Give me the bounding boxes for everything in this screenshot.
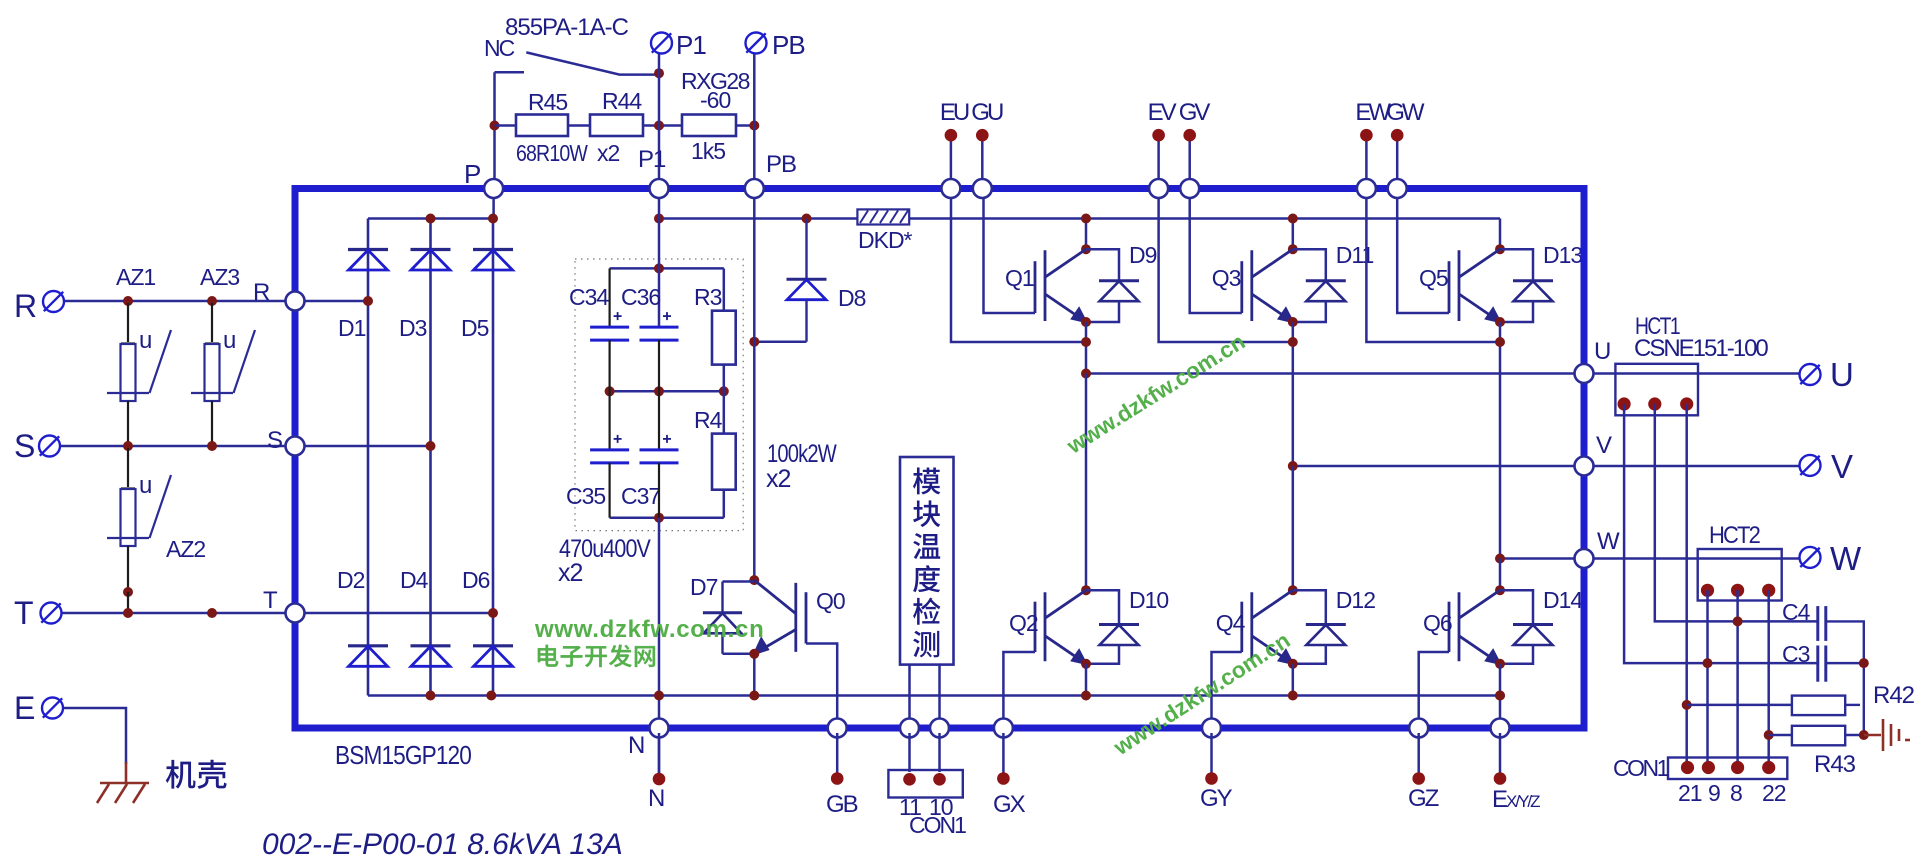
node GB on bottom bus — [828, 719, 847, 738]
wire D7 bottom to Q0 — [723, 653, 755, 656]
arrester AZ1 disconnector — [107, 392, 149, 394]
wire N vertical from caps — [658, 518, 661, 779]
arrester AZ1 body — [121, 342, 135, 344]
terminal dot EW — [1360, 129, 1373, 142]
junction dot Q6 emitter — [1495, 659, 1505, 669]
svg-text:Q2: Q2 — [1009, 610, 1038, 636]
junction dot S-AZ3 — [207, 441, 217, 451]
wire C4 right — [1826, 621, 1864, 735]
junction dot top rail D3 — [426, 214, 436, 224]
wire PB vertical to brake — [753, 192, 756, 580]
junction dot Q6 emitter rail — [1495, 691, 1505, 701]
diode D8 — [805, 219, 807, 280]
diode D7 — [721, 582, 723, 613]
arrester AZ2 lead bottom — [127, 546, 129, 590]
pin dot 9 — [1702, 761, 1715, 774]
junction dot Q3 rail — [1288, 214, 1298, 224]
wire D7 top to Q0 — [723, 580, 755, 583]
sensor dots HCT1 — [1618, 397, 1631, 410]
resistor R4 — [723, 391, 726, 433]
svg-text:P1: P1 — [676, 30, 706, 60]
fuse DKD* hatched box — [857, 209, 909, 224]
junction dot T-AZ2 — [123, 608, 133, 618]
svg-text:8: 8 — [1730, 780, 1742, 806]
svg-text:GU: GU — [971, 99, 1003, 126]
junction dot Q5 emitter — [1495, 317, 1505, 327]
aux emitter rail EW — [1366, 192, 1500, 342]
pin dot 11 — [903, 773, 916, 786]
cap bank mid rail — [610, 390, 724, 393]
wire terminal GW stub — [1396, 135, 1399, 185]
node P1 on top bus — [650, 179, 669, 198]
junction dot Q5 aux emitter — [1495, 337, 1505, 347]
svg-text:C4: C4 — [1782, 599, 1811, 625]
wire Q4 emitter down — [1292, 664, 1295, 696]
wire C35 lead top — [608, 391, 610, 450]
node GW on top bus — [1388, 179, 1407, 198]
diode D5 — [473, 250, 513, 271]
svg-text:855PA-1A-C: 855PA-1A-C — [505, 14, 629, 41]
junction dot R43 line — [1764, 730, 1774, 740]
terminal V output — [1800, 455, 1821, 476]
terminal dot E — [1494, 772, 1507, 785]
current sensor HCT2 box — [1698, 549, 1782, 601]
pin dot 21 — [1681, 761, 1694, 774]
wire terminal EU stub — [950, 135, 953, 185]
svg-text:R: R — [253, 279, 270, 306]
box module temperature detection — [900, 457, 954, 665]
node GU on top bus — [973, 179, 992, 198]
terminal P1 — [651, 33, 672, 54]
junction dot W rail — [1495, 554, 1505, 564]
junction dot Q1 emitter — [1081, 317, 1091, 327]
junction dot T-D5 — [488, 608, 498, 618]
wire Q6 emitter to EXYZ — [1499, 696, 1502, 724]
junction dot bottom rail D4 — [426, 691, 436, 701]
rectifier bottom rail / N-side emitter rail — [368, 694, 1500, 697]
terminal W output — [1800, 547, 1821, 568]
svg-text:Q5: Q5 — [1419, 265, 1448, 291]
svg-text:R43: R43 — [1814, 751, 1856, 778]
svg-text:D13: D13 — [1543, 242, 1582, 268]
terminal dot GB — [831, 772, 844, 785]
svg-text:S: S — [14, 428, 35, 464]
wire Q3 emitter down — [1292, 322, 1295, 466]
capacitor C4 — [1818, 606, 1826, 641]
wire P1 vertical — [658, 54, 661, 186]
svg-text:x2: x2 — [597, 140, 620, 166]
wire C37 lead top — [658, 391, 660, 450]
node GZ on bottom bus — [1409, 719, 1428, 738]
junction dot PB-RXG — [749, 121, 759, 131]
wire terminal GB stub — [836, 733, 839, 773]
arrester AZ1 lead top — [127, 303, 129, 342]
junction dot PB-D8 — [749, 337, 759, 347]
junction dot Q4 collector — [1288, 585, 1298, 595]
wire C36 lead bottom — [658, 340, 660, 391]
svg-text:V: V — [1596, 432, 1612, 459]
wire HCT1 mid output — [1655, 404, 1817, 621]
node EW on top bus — [1357, 179, 1376, 198]
resistor R44 — [590, 115, 643, 137]
cap bank top rail — [610, 267, 724, 270]
svg-text:1k5: 1k5 — [691, 138, 725, 164]
wire AZ2 to T — [127, 592, 129, 613]
node U on right edge — [1575, 364, 1594, 383]
terminal dot GU — [976, 129, 989, 142]
diode D6 — [473, 646, 513, 667]
junction dot Q1 rail — [1081, 214, 1091, 224]
svg-text:W: W — [1830, 540, 1862, 577]
junction dot Q0 collector — [749, 575, 759, 585]
junction dot rail D8 — [802, 214, 812, 224]
junction dot Q6 collector — [1495, 585, 1505, 595]
wire Q6 gate lead — [1419, 652, 1449, 723]
wire temp box pin 10 — [938, 665, 941, 723]
wire terminal N stub — [658, 733, 661, 773]
svg-text:x2: x2 — [558, 559, 583, 587]
svg-text:22: 22 — [1762, 780, 1786, 806]
wire Q2 emitter down — [1085, 664, 1088, 696]
transistor Q5 IGBT — [1449, 249, 1500, 321]
junction dot Q0 emitter rail — [749, 691, 759, 701]
chassis ground — [97, 783, 149, 803]
node V on right edge — [1575, 457, 1594, 476]
arrester AZ2 lead top — [127, 448, 129, 487]
svg-text:CON1: CON1 — [909, 812, 966, 838]
junction dot U rail — [1081, 369, 1091, 379]
junction dot Q5 collector — [1495, 244, 1505, 254]
pin dot 22 — [1762, 761, 1775, 774]
junction dot bottom rail D6 — [486, 691, 496, 701]
wire bus to CON1 pin 11 — [908, 733, 911, 772]
terminal dot GZ — [1412, 772, 1425, 785]
node EV on top bus — [1149, 179, 1168, 198]
junction dot R42 line — [1682, 700, 1692, 710]
svg-text:C35: C35 — [566, 483, 605, 509]
junction dot C3 line — [1703, 658, 1713, 668]
resistor R43 — [1769, 734, 1792, 737]
junction dot S-D3 — [426, 441, 436, 451]
phase rail W — [1500, 557, 1799, 560]
svg-text:D4: D4 — [400, 567, 429, 593]
transistor Q4 IGBT — [1242, 590, 1293, 663]
terminal dot EV — [1152, 129, 1165, 142]
wire W upper-lower link — [1499, 559, 1502, 591]
svg-text:T: T — [14, 595, 34, 631]
wire terminal E stub — [1499, 733, 1502, 773]
wire Q4 gate lead — [1212, 652, 1242, 723]
junction dot Q6 emitter rail — [1495, 691, 1505, 701]
wire column D3 — [429, 219, 432, 696]
wire PB vertical — [753, 54, 756, 186]
svg-text:N: N — [648, 785, 664, 812]
wire Q5 collector — [1499, 219, 1502, 250]
diode D1 — [348, 250, 388, 271]
terminal U output — [1800, 364, 1821, 385]
svg-text:R3: R3 — [694, 284, 722, 310]
svg-text:R42: R42 — [1873, 682, 1915, 709]
capacitor C34 — [590, 327, 629, 340]
wire C37 lead bottom — [658, 463, 660, 518]
svg-text:DKD*: DKD* — [858, 227, 913, 253]
svg-text:BSM15GP120: BSM15GP120 — [335, 740, 471, 770]
wire Q0 emitter to rail — [753, 654, 756, 696]
wire C34 lead bottom — [608, 340, 610, 391]
wire terminal GV stub — [1188, 135, 1191, 185]
svg-text:C36: C36 — [621, 284, 660, 310]
terminal dot N — [653, 773, 666, 786]
svg-text:C37: C37 — [621, 483, 660, 509]
svg-text:E: E — [14, 690, 35, 726]
svg-text:u: u — [139, 327, 151, 354]
node T on left edge — [286, 604, 305, 623]
wire S input line — [60, 445, 286, 448]
svg-text:CSNE151-100: CSNE151-100 — [1634, 335, 1768, 362]
junction dot mid C36 — [654, 386, 664, 396]
cap bank bottom rail — [610, 516, 724, 519]
node EXYZ on bottom bus — [1491, 719, 1510, 738]
svg-text:u: u — [223, 327, 235, 354]
svg-text:PB: PB — [772, 30, 805, 60]
junction dot Q0 emitter — [749, 649, 759, 659]
terminal dot GV — [1183, 129, 1196, 142]
wire HCT2 mid output — [1736, 590, 1739, 767]
svg-text:C34: C34 — [569, 284, 609, 310]
svg-text:U: U — [1594, 338, 1610, 365]
svg-text:S: S — [267, 427, 282, 454]
junction dot Q1 aux emitter — [1081, 337, 1091, 347]
capacitor C3 — [1818, 646, 1826, 682]
node W on right edge — [1575, 549, 1594, 568]
node S on left edge — [286, 437, 305, 456]
diode D4 — [411, 646, 451, 667]
wire E input line — [63, 708, 126, 764]
svg-text:GX: GX — [993, 791, 1026, 818]
diode D10 — [1086, 590, 1119, 624]
phase rail V — [1293, 465, 1799, 468]
wire Q3 collector — [1292, 219, 1295, 250]
junction dot top rail D5 — [488, 214, 498, 224]
junction dot R43 bus — [1859, 730, 1869, 740]
wire C35 lead bottom — [608, 463, 610, 518]
svg-text:Q0: Q0 — [816, 588, 845, 614]
module outline BSM15GP120 — [295, 189, 1584, 729]
relay fixed contact tick — [495, 71, 525, 74]
node 11 on bottom bus — [900, 719, 919, 738]
arrester AZ2 body — [121, 487, 135, 489]
wire R44 lead right — [643, 124, 682, 127]
wire Q5 emitter down — [1499, 322, 1502, 559]
svg-text:D9: D9 — [1129, 242, 1157, 268]
node GY on bottom bus — [1202, 719, 1221, 738]
wire terminal GY stub — [1210, 733, 1213, 773]
junction dot Q2 emitter rail — [1081, 691, 1091, 701]
node PB on top bus — [745, 179, 764, 198]
wire bus to CON1 pin 10 — [938, 733, 941, 772]
earth ground — [1864, 719, 1910, 751]
junction dot cap top rail — [654, 263, 664, 273]
svg-text:N: N — [628, 732, 644, 759]
svg-text:AZ3: AZ3 — [200, 264, 239, 290]
wire V upper-lower link — [1292, 466, 1295, 590]
wire HCT1 left output — [1624, 404, 1817, 663]
svg-text:R44: R44 — [602, 88, 642, 114]
aux emitter rail EV — [1159, 192, 1293, 342]
junction dot S-AZ1 — [123, 441, 133, 451]
pin dot 8 — [1731, 761, 1744, 774]
arrester AZ2 disconnector — [107, 537, 149, 539]
svg-text:EV: EV — [1148, 99, 1177, 126]
junction dot R-AZ3 — [207, 296, 217, 306]
terminal dot GW — [1391, 129, 1404, 142]
svg-text:D11: D11 — [1336, 242, 1374, 268]
junction dot C4 line — [1733, 616, 1743, 626]
svg-text:HCT2: HCT2 — [1709, 522, 1761, 549]
svg-text:Q6: Q6 — [1423, 610, 1452, 636]
svg-text:AZ2: AZ2 — [166, 536, 205, 562]
junction dot rail P1 — [654, 214, 664, 224]
svg-text:CON1: CON1 — [1613, 755, 1669, 781]
wire column D5 — [492, 219, 495, 696]
wire T input line — [61, 612, 286, 615]
junction dot blade-P1 — [654, 68, 664, 78]
svg-text:Q4: Q4 — [1216, 610, 1246, 636]
junction dot Q3 aux emitter — [1288, 337, 1298, 347]
svg-text:D14: D14 — [1543, 587, 1583, 613]
terminal S — [39, 436, 60, 457]
svg-text:EU: EU — [940, 99, 969, 126]
junction dot Q3 collector — [1288, 244, 1298, 254]
svg-text:PB: PB — [766, 151, 796, 178]
capacitor C35 — [590, 450, 629, 463]
wire C34 lead top — [608, 268, 610, 327]
wire terminal EW stub — [1365, 135, 1368, 185]
current sensor HCT1 box — [1615, 364, 1698, 416]
svg-text:D2: D2 — [337, 567, 365, 593]
wire P1 vertical through caps — [658, 192, 661, 327]
diode D3 — [411, 250, 451, 271]
svg-text:Q1: Q1 — [1005, 265, 1034, 291]
terminal dot EU — [945, 129, 958, 142]
wire P node to rectifier rail — [492, 189, 495, 219]
svg-text:GZ: GZ — [1408, 785, 1439, 812]
diode D11 — [1293, 249, 1326, 281]
svg-text:GW: GW — [1386, 99, 1425, 126]
svg-text:www.dzkfw.com.cn: www.dzkfw.com.cn — [534, 616, 764, 643]
junction dot N rail — [654, 691, 664, 701]
wire Q5 gate lead — [1397, 192, 1449, 313]
capacitor C36 — [640, 327, 679, 340]
svg-text:GB: GB — [826, 791, 858, 818]
wire terminal EV stub — [1157, 135, 1160, 185]
svg-text:T: T — [263, 587, 278, 614]
pin dot 10 — [933, 773, 946, 786]
svg-text:21: 21 — [1678, 780, 1702, 806]
transistor Q2 IGBT — [1035, 590, 1086, 663]
wire terminal GX stub — [1002, 733, 1005, 773]
junction dot R45 left — [490, 121, 500, 131]
terminal dot GX — [997, 772, 1010, 785]
resistor R45 — [516, 115, 568, 137]
wire temp box pin 11 — [908, 665, 911, 723]
wire C3 right — [1826, 662, 1864, 665]
transistor Q1 IGBT — [1035, 249, 1086, 321]
svg-text:D12: D12 — [1336, 587, 1375, 613]
terminal dot GY — [1205, 772, 1218, 785]
junction dot R-D1 — [363, 296, 373, 306]
svg-text:Q3: Q3 — [1212, 265, 1241, 291]
wire HCT2 left output — [1706, 590, 1709, 767]
svg-text:AZ1: AZ1 — [116, 264, 155, 290]
cap bank dotted outline — [575, 259, 743, 531]
aux emitter rail EU — [951, 192, 1086, 342]
svg-text:W: W — [1597, 528, 1620, 555]
wire D8 to PB — [754, 340, 806, 343]
resistor R3 — [723, 268, 726, 310]
junction dot Q1 collector — [1081, 244, 1091, 254]
wire HCT2 right output — [1767, 590, 1770, 767]
svg-text:x2: x2 — [766, 465, 791, 493]
svg-text:68R10W: 68R10W — [516, 140, 588, 166]
relay NC blade — [526, 52, 659, 74]
arrester AZ3 lead top — [211, 303, 213, 342]
resistor R42 — [1687, 704, 1792, 707]
wire Q0 gate lead — [806, 644, 837, 724]
svg-text:P1: P1 — [638, 146, 666, 173]
diode D12 — [1293, 590, 1326, 624]
svg-text:C3: C3 — [1782, 641, 1810, 667]
wire Q1 gate lead — [984, 192, 1036, 313]
node EU on top bus — [941, 179, 960, 198]
label 模块温度检测 — [913, 468, 940, 495]
wire HCT1 right output — [1685, 404, 1688, 768]
arrester AZ1 lead bottom — [127, 401, 129, 444]
svg-text:P: P — [464, 159, 480, 189]
terminal E — [42, 698, 63, 719]
node GX on bottom bus — [994, 719, 1013, 738]
junction dot Q3 emitter — [1288, 317, 1298, 327]
junction dot Q2 emitter — [1081, 659, 1091, 669]
junction dot Q4 emitter — [1288, 659, 1298, 669]
svg-text:GY: GY — [1200, 785, 1233, 812]
svg-text:D6: D6 — [462, 567, 490, 593]
terminal T — [41, 603, 62, 624]
arrester AZ3 disconnector — [191, 392, 233, 394]
svg-text:D10: D10 — [1129, 587, 1168, 613]
node P on top bus — [484, 179, 503, 198]
wire column D1 — [367, 219, 370, 696]
wire RXG lead right — [736, 124, 754, 127]
junction dot R-AZ1 — [123, 296, 133, 306]
svg-text:D3: D3 — [399, 315, 427, 341]
svg-text:V: V — [1831, 448, 1853, 485]
resistor RXG28-60 — [682, 115, 736, 137]
watermark 电子开发网 — [538, 645, 558, 667]
transistor Q3 IGBT — [1242, 249, 1293, 321]
svg-text:D5: D5 — [461, 315, 489, 341]
transistor Q0 IGBT — [754, 580, 806, 653]
diode D14 — [1500, 590, 1533, 624]
node R on left edge — [286, 292, 305, 311]
node GV on top bus — [1180, 179, 1199, 198]
svg-text:D7: D7 — [690, 574, 718, 600]
node N on bottom bus — [650, 719, 669, 738]
svg-text:R45: R45 — [528, 89, 567, 115]
junction dot mid C34 — [605, 386, 615, 396]
svg-text:u: u — [139, 472, 151, 499]
diode D13 — [1500, 249, 1533, 281]
